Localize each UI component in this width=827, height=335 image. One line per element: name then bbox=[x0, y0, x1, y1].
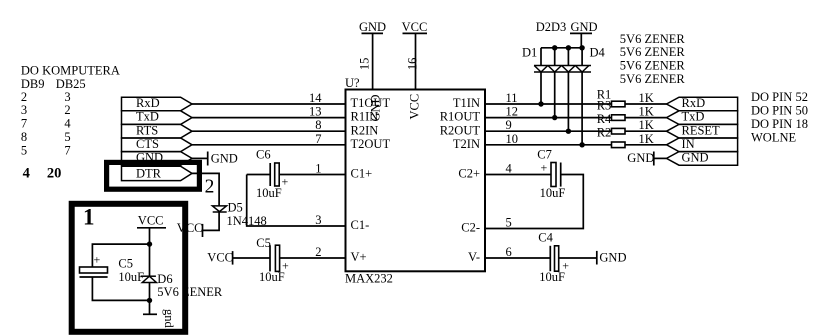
svg-text:R2: R2 bbox=[597, 126, 612, 140]
junction bbox=[147, 241, 152, 246]
power port VCC bbox=[137, 213, 166, 228]
wire bbox=[625, 103, 667, 105]
wire bbox=[554, 48, 556, 66]
svg-text:5: 5 bbox=[21, 143, 27, 157]
svg-text:V-: V- bbox=[468, 250, 480, 264]
svg-text:2: 2 bbox=[315, 245, 321, 259]
wire bbox=[280, 257, 346, 259]
svg-text:C7: C7 bbox=[537, 148, 552, 162]
svg-text:RxD: RxD bbox=[136, 96, 160, 110]
net flag RTS bbox=[122, 123, 193, 138]
net flag CTS bbox=[122, 137, 193, 152]
svg-text:RxD: RxD bbox=[682, 96, 706, 110]
svg-text:R2IN: R2IN bbox=[351, 123, 379, 137]
IC U? MAX232 body bbox=[346, 90, 486, 272]
junction bbox=[147, 298, 152, 303]
svg-text:3: 3 bbox=[21, 103, 27, 117]
svg-text:9: 9 bbox=[506, 118, 512, 132]
wire bbox=[92, 244, 149, 267]
wire bbox=[540, 48, 542, 66]
zener diodes D1 D2 D3 D4 cathode and anode bars bbox=[534, 66, 591, 73]
svg-text:D2D3: D2D3 bbox=[536, 20, 567, 34]
svg-text:T2IN: T2IN bbox=[453, 137, 480, 151]
svg-text:RTS: RTS bbox=[136, 123, 158, 137]
wire GND bus bbox=[541, 47, 582, 49]
wire bbox=[485, 144, 612, 146]
svg-text:GND: GND bbox=[359, 20, 386, 34]
svg-text:DO PIN 52: DO PIN 52 bbox=[751, 90, 808, 104]
svg-text:3: 3 bbox=[64, 90, 70, 104]
svg-text:U?: U? bbox=[345, 76, 360, 90]
wire bbox=[625, 117, 667, 119]
resistor R3 1K bbox=[597, 99, 654, 121]
svg-text:TxD: TxD bbox=[136, 110, 159, 124]
wire bbox=[654, 157, 667, 159]
capacitor C7 bbox=[537, 148, 565, 201]
zener diode D1 bbox=[534, 66, 548, 73]
wire bbox=[192, 157, 208, 159]
wire bbox=[92, 277, 149, 300]
svg-text:20: 20 bbox=[47, 165, 62, 181]
svg-text:11: 11 bbox=[506, 91, 518, 105]
zener diode D2 bbox=[548, 66, 562, 73]
diode D5 1N4148 bbox=[212, 201, 266, 228]
resistor R1 1K bbox=[597, 87, 654, 106]
wire bbox=[625, 130, 667, 132]
svg-text:1K: 1K bbox=[639, 118, 654, 132]
net flag RxD bbox=[122, 96, 193, 111]
power port VCC bbox=[177, 221, 203, 237]
power port GND bbox=[208, 151, 238, 165]
wire bbox=[485, 175, 583, 229]
svg-text:10uF: 10uF bbox=[118, 270, 144, 284]
svg-text:8: 8 bbox=[315, 118, 321, 132]
svg-text:10uF: 10uF bbox=[540, 186, 566, 200]
svg-text:2: 2 bbox=[205, 176, 215, 197]
wire bbox=[149, 283, 151, 301]
wire bbox=[485, 117, 612, 119]
svg-text:2: 2 bbox=[64, 103, 70, 117]
junction bbox=[566, 45, 571, 50]
annotation box 2 around DTR bbox=[107, 162, 200, 189]
wire bbox=[554, 72, 556, 118]
net flag RESET bbox=[667, 123, 738, 138]
power port GND bbox=[570, 20, 598, 34]
wire bbox=[540, 72, 542, 104]
svg-text:5V6 ZENER: 5V6 ZENER bbox=[620, 72, 686, 86]
svg-text:5V6 ZENER: 5V6 ZENER bbox=[620, 45, 686, 59]
connector pin table DO KOMPUTERA bbox=[21, 63, 120, 181]
svg-text:MAX232: MAX232 bbox=[345, 272, 393, 286]
wire bbox=[247, 175, 346, 227]
zener diode D6 5V6 ZENER bbox=[141, 272, 223, 299]
svg-text:12: 12 bbox=[506, 105, 519, 119]
svg-text:4: 4 bbox=[23, 165, 30, 181]
junction bbox=[538, 101, 543, 106]
svg-text:CTS: CTS bbox=[136, 137, 159, 151]
svg-text:IN: IN bbox=[682, 137, 695, 151]
svg-text:DO KOMPUTERA: DO KOMPUTERA bbox=[21, 63, 120, 77]
svg-text:1K: 1K bbox=[639, 91, 654, 105]
svg-text:5V6 ZENER: 5V6 ZENER bbox=[157, 285, 223, 299]
wire bbox=[567, 72, 569, 131]
svg-text:C1+: C1+ bbox=[351, 167, 373, 181]
svg-text:VCC: VCC bbox=[207, 250, 233, 264]
svg-text:GND: GND bbox=[571, 20, 598, 34]
resistor R4 1K bbox=[597, 112, 654, 134]
svg-text:3: 3 bbox=[315, 213, 321, 227]
svg-text:1K: 1K bbox=[639, 105, 654, 119]
svg-text:D1: D1 bbox=[522, 46, 537, 60]
wire bbox=[567, 48, 569, 66]
svg-text:DO PIN 50: DO PIN 50 bbox=[751, 104, 808, 118]
svg-text:C2-: C2- bbox=[461, 221, 480, 235]
svg-text:gnd: gnd bbox=[162, 309, 176, 329]
wire bbox=[149, 300, 151, 314]
svg-text:DO PIN 18: DO PIN 18 bbox=[751, 117, 808, 131]
power port VCC (pin 16) bbox=[402, 20, 428, 34]
power port VCC bbox=[207, 250, 233, 264]
svg-text:C4: C4 bbox=[538, 230, 553, 244]
svg-text:14: 14 bbox=[309, 91, 322, 105]
svg-text:10uF: 10uF bbox=[539, 270, 565, 284]
svg-text:4: 4 bbox=[506, 162, 513, 176]
svg-text:16: 16 bbox=[405, 58, 419, 71]
svg-text:VCC: VCC bbox=[402, 20, 428, 34]
svg-text:GND: GND bbox=[599, 251, 626, 265]
svg-text:5V6 ZENER: 5V6 ZENER bbox=[620, 59, 686, 73]
wire bbox=[581, 48, 583, 66]
svg-text:1K: 1K bbox=[639, 132, 654, 146]
annotation box 1 bbox=[72, 204, 186, 332]
power port GND bbox=[597, 251, 627, 265]
wire bbox=[149, 228, 151, 276]
svg-text:+: + bbox=[94, 253, 101, 267]
power port GND (pin 15) bbox=[359, 20, 386, 34]
svg-text:WOLNE: WOLNE bbox=[751, 131, 796, 145]
svg-text:1: 1 bbox=[83, 205, 95, 230]
wire bbox=[485, 103, 612, 105]
net flag GND bbox=[667, 151, 738, 166]
svg-text:R2OUT: R2OUT bbox=[440, 123, 481, 137]
capacitor C5 bbox=[256, 236, 289, 284]
junction bbox=[566, 129, 571, 134]
svg-text:C5: C5 bbox=[256, 236, 271, 250]
power port GND bbox=[627, 151, 654, 166]
wire bbox=[192, 130, 346, 132]
junction bbox=[579, 142, 584, 147]
svg-text:GND: GND bbox=[368, 94, 382, 121]
wire bbox=[485, 174, 551, 176]
junction bbox=[579, 45, 584, 50]
svg-text:5: 5 bbox=[64, 130, 70, 144]
svg-text:7: 7 bbox=[64, 143, 70, 157]
svg-text:D4: D4 bbox=[590, 46, 606, 60]
wire bbox=[372, 33, 374, 89]
net flag TxD bbox=[122, 110, 193, 125]
net flag TxD bbox=[667, 110, 738, 125]
svg-text:10: 10 bbox=[506, 132, 519, 146]
wire bbox=[203, 212, 220, 230]
junction bbox=[552, 45, 557, 50]
zener diode D3 bbox=[562, 66, 576, 73]
svg-text:V+: V+ bbox=[351, 250, 367, 264]
svg-text:10uF: 10uF bbox=[259, 270, 285, 284]
svg-text:VCC: VCC bbox=[177, 221, 203, 235]
wire bbox=[485, 257, 550, 259]
svg-text:T2OUT: T2OUT bbox=[351, 137, 391, 151]
svg-text:5V6 ZENER: 5V6 ZENER bbox=[620, 32, 686, 46]
svg-text:TxD: TxD bbox=[682, 110, 705, 124]
svg-text:D6: D6 bbox=[157, 272, 172, 286]
capacitor C4 bbox=[538, 230, 569, 284]
capacitor C5 10uF bbox=[80, 253, 145, 284]
junction bbox=[552, 115, 557, 120]
wire bbox=[580, 33, 582, 47]
wire bbox=[192, 103, 346, 105]
wire bbox=[279, 174, 345, 176]
svg-text:C2+: C2+ bbox=[458, 167, 480, 181]
capacitor C6 bbox=[256, 148, 289, 201]
svg-text:VCC: VCC bbox=[408, 94, 422, 120]
svg-text:8: 8 bbox=[21, 130, 27, 144]
wire bbox=[415, 33, 417, 89]
svg-text:GND: GND bbox=[627, 151, 654, 165]
net flag IN bbox=[667, 137, 738, 152]
svg-text:13: 13 bbox=[309, 105, 322, 119]
net flag DTR bbox=[122, 166, 193, 180]
svg-text:R4: R4 bbox=[597, 112, 612, 126]
svg-text:C1-: C1- bbox=[351, 218, 370, 232]
svg-text:DTR: DTR bbox=[136, 167, 162, 181]
wire bbox=[581, 72, 583, 145]
svg-text:6: 6 bbox=[506, 245, 512, 259]
resistor R2 1K bbox=[597, 126, 654, 148]
svg-text:+: + bbox=[282, 175, 289, 189]
zener diode D4 bbox=[575, 66, 589, 73]
net flag RxD bbox=[667, 96, 738, 111]
svg-text:4: 4 bbox=[64, 117, 71, 131]
svg-text:1: 1 bbox=[315, 162, 321, 176]
svg-text:15: 15 bbox=[358, 58, 372, 71]
svg-text:VCC: VCC bbox=[138, 213, 164, 227]
svg-text:7: 7 bbox=[21, 117, 27, 131]
wire bbox=[233, 257, 270, 259]
wire bbox=[192, 173, 219, 206]
wire bbox=[485, 130, 612, 132]
wire bbox=[625, 144, 667, 146]
net flag GND bbox=[122, 151, 193, 166]
svg-text:RESET: RESET bbox=[682, 123, 721, 137]
svg-text:R3: R3 bbox=[597, 99, 612, 113]
wire bbox=[192, 144, 346, 146]
svg-text:D5: D5 bbox=[228, 201, 243, 215]
svg-text:C5: C5 bbox=[118, 257, 133, 271]
svg-text:+: + bbox=[541, 161, 548, 175]
svg-text:2: 2 bbox=[21, 90, 27, 104]
svg-text:10uF: 10uF bbox=[256, 186, 282, 200]
svg-text:DB25: DB25 bbox=[56, 77, 86, 91]
svg-text:GND: GND bbox=[682, 151, 709, 165]
svg-text:R1OUT: R1OUT bbox=[440, 110, 481, 124]
svg-text:C6: C6 bbox=[256, 148, 271, 162]
wire bbox=[192, 117, 346, 119]
svg-text:GND: GND bbox=[211, 151, 238, 165]
power port gnd bbox=[143, 309, 176, 329]
svg-text:7: 7 bbox=[315, 132, 321, 146]
svg-text:T1IN: T1IN bbox=[453, 96, 480, 110]
wire bbox=[559, 257, 597, 259]
wire bbox=[247, 174, 271, 176]
svg-text:5: 5 bbox=[506, 216, 512, 230]
